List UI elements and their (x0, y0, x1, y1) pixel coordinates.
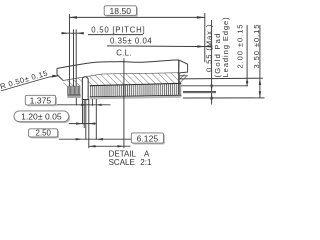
extension line B (x=73.5) (73, 30, 75, 87)
dimension box 18.50 (104, 6, 138, 17)
dimension 0.55 (Max.) (204, 16, 230, 104)
svg-text:1.20± 0.05: 1.20± 0.05 (21, 112, 62, 122)
svg-text:6.125: 6.125 (137, 133, 159, 143)
dimension box 2.50 (29, 129, 59, 139)
svg-text:0.50 [PITCH]: 0.50 [PITCH] (91, 26, 145, 35)
leader note R 0.50 +/-0.15 (0, 68, 60, 91)
notch centerline extension (85, 99, 87, 140)
extension line A (x=69) (68, 14, 70, 87)
wavy break line (board top) (57, 60, 179, 69)
hatch zone top line (102, 73, 179, 74)
extension v96.3 (95, 99, 97, 140)
heavy break line at right (178, 60, 180, 95)
svg-text:Leading Edge): Leading Edge) (221, 16, 230, 77)
dimension row y=139 (59, 138, 131, 140)
svg-text:1.375: 1.375 (30, 95, 52, 105)
dimension 1.20 +/-0.05 (oval) (14, 111, 96, 125)
bottom dimension line to centerline (89, 145, 130, 147)
svg-text:2:1: 2:1 (140, 158, 152, 167)
extension line D (x=204.8) (204, 13, 206, 62)
notch right edge extension (88, 99, 90, 148)
dimension 3.50 +/-0.15 (252, 24, 261, 98)
dimension 0.35 +/-0.04 (107, 45, 212, 48)
dimension box 6.125 (131, 133, 165, 145)
centerline (123, 58, 125, 148)
extension line C (x=76.2) (75, 30, 77, 87)
svg-text:3.50 ±0.15: 3.50 ±0.15 (252, 24, 261, 69)
right side extension line L2 (181, 85, 248, 87)
svg-text:18.50: 18.50 (110, 6, 132, 16)
extension v92.4 (91, 99, 93, 106)
svg-text:SCALE: SCALE (109, 158, 135, 167)
gold pad band (right comb segment) (90, 83, 182, 99)
right side extension line L1 (179, 77, 263, 80)
svg-text:2.50: 2.50 (36, 129, 52, 138)
key notch (white slot with round top) (82, 77, 88, 100)
corner radius chamfer (R0.50) (57, 75, 63, 81)
svg-text:A: A (144, 149, 150, 158)
gold pad band (left dark segment) (67, 86, 80, 98)
svg-text:C.L.: C.L. (116, 48, 131, 57)
svg-text:DETAIL: DETAIL (109, 149, 137, 158)
gold pad leading edge line pair (183, 90, 216, 92)
right side extension line L3 (183, 97, 265, 99)
svg-text:0.35± 0.04: 0.35± 0.04 (110, 37, 152, 46)
dimension 0.50 [PITCH] (62, 32, 85, 34)
small hatch ticks right end (180, 75, 187, 83)
lead-in chamfer edge line (63, 74, 102, 80)
notch left edge extension (82, 99, 84, 124)
right end lower edge line (179, 75, 188, 77)
svg-text:2.00 ±0.15: 2.00 ±0.15 (235, 24, 244, 69)
board left edge (56, 68, 58, 74)
extension v76.3 below board (75, 98, 77, 106)
dimension 18.50 line (69, 16, 205, 18)
extension v84.2 (83, 99, 85, 128)
dimension 2.00 +/-0.15 (235, 24, 248, 86)
right end outline chamfer (179, 60, 187, 73)
hatched plating zone (63, 73, 181, 87)
underline of 0.50 [PITCH] (88, 34, 143, 36)
dimension 1.375 (25, 95, 110, 106)
